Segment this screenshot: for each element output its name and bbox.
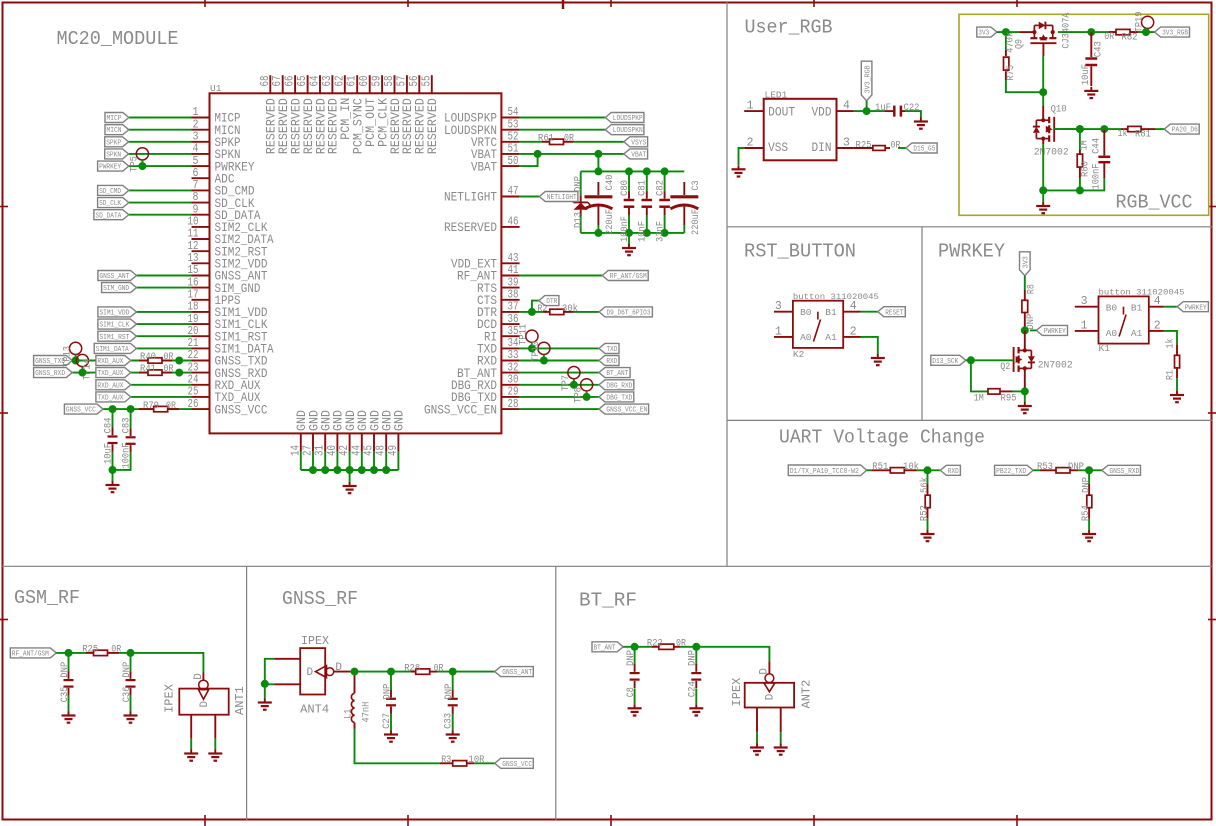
net label RF_ANT/GSM [10, 648, 56, 658]
zener diode D13 [580, 171, 582, 196]
wire DTR [520, 311, 543, 313]
resistor R41 [139, 372, 148, 374]
RGB_VCC group box [959, 14, 1209, 215]
U1 pin 33 RXD [501, 360, 519, 362]
wire [574, 141, 624, 143]
wire [1054, 128, 1104, 130]
svg-text:4: 4 [843, 100, 850, 113]
wire [1138, 31, 1155, 33]
K1 pin 3 [1075, 306, 1099, 308]
U1 pin 38 CTS [501, 299, 519, 301]
wire [437, 671, 495, 673]
svg-text:28: 28 [508, 398, 519, 411]
wire [1155, 128, 1164, 130]
capacitor C24 [695, 647, 697, 665]
junction [370, 466, 378, 474]
wire [1033, 469, 1040, 471]
U1 pin 49 GND [397, 433, 399, 451]
resistor R3 [440, 762, 453, 764]
wire [361, 452, 363, 470]
U1 pin 62 PCM_IN [344, 75, 346, 93]
net label BT_ANT [592, 642, 623, 652]
wire [137, 275, 192, 277]
svg-text:R61: R61 [538, 133, 554, 145]
antenna connector ANT4 (IPEX) [300, 648, 325, 694]
test point TP5 [136, 148, 148, 160]
resistor R79 [139, 408, 154, 410]
wire [532, 301, 539, 312]
net label PWRKEY [1036, 325, 1067, 335]
svg-text:11: 11 [188, 228, 199, 241]
net label RXD [940, 465, 960, 475]
wire [385, 452, 387, 470]
test point TP14 [76, 354, 88, 366]
svg-text:PWRKEY: PWRKEY [1185, 304, 1208, 312]
svg-text:67: 67 [271, 76, 284, 87]
svg-text:MC20_MODULE: MC20_MODULE [57, 28, 179, 50]
wire [1088, 519, 1090, 530]
K2 pin 3 [774, 311, 793, 313]
wire VBAT [520, 153, 624, 155]
net label PWRKEY [1177, 302, 1208, 312]
U1 pin 5 PWRKEY [192, 165, 210, 167]
svg-text:1: 1 [193, 106, 199, 119]
wire [264, 684, 266, 699]
svg-text:C84: C84 [102, 418, 114, 434]
svg-text:58: 58 [383, 75, 396, 86]
svg-text:12: 12 [188, 240, 199, 253]
net label GNSS_RXD [34, 368, 73, 378]
svg-text:0R: 0R [166, 400, 176, 412]
svg-text:IPEX: IPEX [163, 684, 177, 713]
junction [594, 167, 602, 175]
junction [1076, 125, 1084, 133]
resistor R81 [1104, 128, 1121, 130]
wire [129, 117, 192, 119]
svg-text:U1: U1 [210, 83, 222, 94]
junction [351, 668, 359, 676]
net label MICN [105, 125, 129, 135]
LED1 pin 2 [744, 147, 764, 149]
svg-text:DNP: DNP [121, 662, 133, 678]
U1 pin 26 GNSS_VCC [192, 408, 210, 410]
junction [594, 150, 602, 158]
net label SD_DATA [94, 210, 129, 220]
svg-text:PB22_TXD: PB22_TXD [996, 468, 1026, 476]
ground [780, 744, 782, 748]
wire [129, 165, 192, 167]
svg-text:220uF: 220uF [604, 209, 616, 235]
wire [597, 154, 599, 172]
push button K1 [1099, 296, 1149, 343]
net label GNSS_ANT [495, 667, 534, 677]
wire [72, 360, 191, 362]
svg-text:3V3_RGB: 3V3_RGB [864, 65, 872, 93]
svg-text:LOUDSPKN: LOUDSPKN [613, 127, 643, 135]
wire [971, 360, 988, 391]
wire VBAT rail [581, 170, 685, 172]
wire [137, 287, 192, 289]
svg-text:56: 56 [408, 75, 421, 86]
net label DBG_TXD [599, 392, 634, 402]
net label BT_ANT [599, 368, 630, 378]
junction [924, 466, 932, 474]
svg-text:SD_CLK: SD_CLK [99, 200, 122, 208]
U1 pin 18 SIM1_VDD [192, 311, 210, 313]
U1 pin 31 GND [324, 433, 326, 451]
ground [1176, 391, 1178, 395]
antenna connector ANT2 (IPEX) [768, 661, 770, 674]
wire [1024, 276, 1026, 290]
svg-text:RF_ANT/GSM: RF_ANT/GSM [12, 651, 49, 659]
svg-text:RXD_AUX: RXD_AUX [97, 382, 124, 390]
wire [349, 470, 351, 482]
svg-text:Q10: Q10 [1051, 103, 1067, 115]
U1 pin 67 RESERVED [282, 75, 284, 93]
junction [1021, 326, 1029, 334]
U1 pin 40 GND [336, 433, 338, 451]
U1 pin 58 RESERVED [394, 75, 396, 93]
svg-text:R75: R75 [1005, 65, 1017, 81]
net label D9_D6T_6PIO3 [599, 307, 652, 317]
svg-text:C80: C80 [619, 180, 631, 196]
svg-text:R1: R1 [1165, 370, 1177, 380]
U1 pin 36 DCD [501, 323, 519, 325]
ground [390, 731, 392, 735]
wire [129, 141, 192, 143]
capacitor C81 [646, 171, 648, 191]
svg-text:RESET: RESET [885, 309, 903, 317]
wire DBG_TXD [520, 396, 599, 398]
svg-text:D13_SCK: D13_SCK [932, 358, 959, 366]
resistor R95 [988, 389, 1000, 394]
wire [966, 359, 971, 361]
IC LED1 body [764, 99, 837, 161]
net label SIM1_DATA [94, 343, 136, 353]
U1 pin 54 LOUDSPKP [501, 117, 519, 119]
wire [997, 31, 1020, 33]
svg-text:DNP: DNP [687, 650, 699, 666]
svg-text:D13: D13 [572, 212, 584, 228]
svg-text:GSM_RF: GSM_RF [14, 587, 80, 609]
svg-text:GNSS_RXD: GNSS_RXD [35, 370, 65, 378]
junction [1142, 28, 1150, 36]
svg-text:D: D [307, 667, 314, 679]
U1 pin 43 VDD_EXT [501, 262, 519, 264]
svg-text:DNP: DNP [1068, 461, 1084, 473]
svg-text:8: 8 [193, 191, 199, 204]
svg-text:470k: 470k [1005, 32, 1017, 53]
net label SIM1_RST [98, 331, 137, 341]
svg-text:R79: R79 [143, 400, 159, 412]
wire TXD [520, 347, 599, 349]
U1 pin 56 RESERVED [418, 75, 420, 93]
U1 pin 4 SPKN [192, 153, 210, 155]
svg-text:3: 3 [1081, 295, 1088, 308]
junction [175, 369, 183, 377]
junction [570, 381, 578, 389]
capacitor C35 [68, 653, 70, 671]
svg-text:VBAT: VBAT [471, 159, 497, 174]
test point TP19 [1142, 16, 1154, 28]
svg-text:ANT2: ANT2 [800, 680, 814, 709]
svg-text:SIM1_DATA: SIM1_DATA [96, 346, 130, 354]
junction [358, 466, 366, 474]
ANT1 ground pins [190, 715, 192, 739]
svg-text:GNSS_VCC_EN: GNSS_VCC_EN [424, 402, 497, 417]
svg-text:C43: C43 [1093, 41, 1105, 57]
svg-text:1M: 1M [974, 393, 984, 405]
svg-text:0R: 0R [1104, 31, 1114, 43]
wire RF_ANT/GSM [520, 275, 603, 277]
svg-text:SIM1_VDD: SIM1_VDD [99, 310, 129, 318]
supply label 3V3_RGB [861, 61, 872, 101]
transistor Q9 CJ3407A (P-FET) [1019, 31, 1034, 33]
capacitor C43 [1090, 32, 1092, 57]
svg-text:GND: GND [392, 410, 407, 431]
net label D15_G5 [906, 143, 937, 153]
svg-text:1k: 1k [1165, 339, 1177, 349]
K1 pin 4 [1149, 306, 1164, 308]
svg-text:DNP: DNP [1080, 477, 1092, 493]
svg-text:2: 2 [747, 137, 754, 150]
U1 pin 6 ADC [192, 177, 210, 179]
wire [300, 452, 302, 470]
svg-text:46: 46 [508, 216, 519, 229]
ground [264, 699, 266, 703]
svg-text:30k: 30k [562, 303, 578, 315]
resistor R82 [1109, 31, 1116, 33]
ground [628, 244, 630, 248]
net label PA20_D6 [1164, 124, 1199, 134]
svg-text:55: 55 [420, 75, 433, 86]
resistor R8 [1024, 290, 1026, 300]
capacitor C33 [452, 672, 454, 690]
wire [56, 652, 86, 654]
svg-text:1: 1 [775, 325, 782, 338]
svg-text:57: 57 [395, 76, 408, 87]
svg-text:51: 51 [508, 143, 519, 156]
svg-text:10nF: 10nF [637, 221, 649, 242]
wire RESET [861, 311, 878, 313]
svg-text:1uF: 1uF [875, 102, 891, 114]
svg-text:C82: C82 [654, 180, 666, 196]
svg-text:C81: C81 [637, 180, 649, 196]
wire [119, 653, 203, 673]
wire [129, 153, 192, 155]
junction [534, 150, 542, 158]
U1 pin 44 GND [361, 433, 363, 451]
U1 pin 14 GND [300, 433, 302, 451]
U1 pin 19 SIM1_CLK [192, 323, 210, 325]
capacitor C8 [634, 647, 636, 665]
resistor R52 [927, 470, 929, 484]
net label SD_CLK [98, 198, 129, 208]
svg-text:R81: R81 [1135, 129, 1151, 141]
svg-text:29: 29 [508, 386, 519, 399]
net label GNSS_VCC [64, 404, 103, 414]
antenna connector ANT1 (IPEX) [202, 673, 204, 681]
LED1 pin 3 [837, 147, 854, 149]
wire [137, 335, 192, 337]
svg-text:RXD: RXD [606, 358, 617, 366]
svg-text:RXD: RXD [948, 468, 959, 476]
svg-text:R82: R82 [1122, 32, 1138, 44]
wire [1042, 190, 1044, 202]
net label LOUDSPKP [605, 113, 644, 123]
K2 pin 4 [843, 311, 860, 313]
U1 pin 52 VRTC [501, 141, 519, 143]
svg-text:NETLIGHT: NETLIGHT [547, 194, 577, 202]
svg-text:C40: C40 [604, 175, 616, 191]
svg-text:ANT1: ANT1 [233, 686, 247, 715]
U1 pin 60 PCM_OUT [369, 75, 371, 93]
svg-text:61: 61 [346, 75, 359, 86]
svg-text:DNP: DNP [443, 684, 455, 700]
svg-text:0R: 0R [164, 351, 174, 363]
wire [628, 233, 630, 244]
capacitor C83 [130, 409, 132, 428]
inductor L1 [354, 675, 356, 693]
svg-text:UART Voltage Change: UART Voltage Change [779, 427, 985, 449]
U1 pin 29 DBG_TXD [501, 396, 519, 398]
junction [309, 466, 317, 474]
svg-text:RGB_VCC: RGB_VCC [1116, 192, 1193, 214]
capacitor C40 (polarized) [597, 182, 599, 195]
junction [583, 393, 591, 401]
svg-text:NETLIGHT: NETLIGHT [444, 190, 497, 205]
wire [1042, 56, 1044, 92]
U1 pin 68 RESERVED [269, 75, 271, 93]
resistor R61 [542, 141, 550, 143]
svg-text:B1: B1 [1131, 303, 1143, 314]
net label D1/TX_PA10_TCC0-W2 [788, 465, 866, 476]
net label TXD [599, 343, 619, 353]
svg-text:TP8: TP8 [573, 387, 585, 403]
U1 pin 16 SIM_GND [192, 287, 210, 289]
svg-text:36: 36 [508, 313, 519, 326]
net label GNSS_VCC [495, 758, 534, 768]
ground [452, 731, 454, 735]
test point TP7 [568, 367, 580, 379]
svg-text:63: 63 [321, 75, 334, 86]
net label SIM_GND [102, 283, 137, 293]
U1 pin 25 TXD_AUX [192, 396, 210, 398]
U1 pin 50 VBAT [501, 165, 519, 167]
svg-text:TP13: TP13 [62, 346, 74, 367]
svg-text:R2: R2 [538, 303, 548, 315]
junction [1085, 466, 1093, 474]
U1 pin 41 RF_ANT [501, 275, 519, 277]
wire [334, 671, 350, 673]
wire [112, 470, 114, 481]
U1 pin 55 RESERVED [431, 75, 433, 93]
junction [1100, 125, 1108, 133]
svg-text:R80: R80 [1079, 161, 1091, 177]
wire [131, 384, 192, 386]
wire [1006, 80, 1043, 92]
wire [137, 323, 192, 325]
net label GNSS_VCC_EN [599, 404, 649, 414]
svg-text:DIN: DIN [812, 140, 832, 155]
wire [1176, 378, 1178, 391]
wire [129, 129, 192, 131]
wire [355, 729, 440, 763]
test point TP11 [526, 330, 538, 342]
wire RXD [520, 360, 599, 362]
svg-text:R25: R25 [856, 140, 872, 152]
svg-text:R52: R52 [918, 505, 930, 521]
resistor R2 [543, 311, 550, 313]
svg-text:17: 17 [188, 288, 199, 301]
U1 pin 15 GNSS_ANT [192, 275, 210, 277]
svg-text:DOUT: DOUT [768, 104, 795, 119]
svg-text:D: D [193, 673, 205, 680]
junction [109, 466, 117, 474]
wire [324, 452, 326, 470]
svg-text:TP11: TP11 [518, 324, 530, 345]
svg-text:R3: R3 [441, 754, 451, 766]
svg-text:SD_DATA: SD_DATA [95, 212, 122, 220]
svg-text:CJ3407A: CJ3407A [1061, 12, 1073, 49]
U1 pin 32 BT_ANT [501, 372, 519, 374]
svg-text:A1: A1 [1131, 328, 1143, 339]
junction [863, 107, 871, 115]
test point TP10 [538, 342, 550, 354]
svg-text:D15_G5: D15_G5 [913, 146, 935, 154]
svg-text:DNP: DNP [59, 662, 71, 678]
wire [1042, 144, 1044, 190]
junction [109, 405, 117, 413]
net label TXD_AUX [96, 392, 131, 402]
svg-text:GNSS_RF: GNSS_RF [282, 588, 358, 610]
U1 pin 27 GND [312, 433, 314, 451]
U1 pin 66 RESERVED [294, 75, 296, 93]
svg-text:3V3_RGB: 3V3_RGB [1162, 30, 1188, 38]
U1 pin 37 DTR [501, 311, 519, 313]
junction [528, 308, 536, 316]
junction [65, 649, 73, 657]
net label GNSS_TXD [34, 356, 73, 366]
net label GNSS_ANT [98, 271, 137, 281]
junction [78, 369, 86, 377]
svg-text:K2: K2 [793, 349, 805, 360]
junction [661, 167, 669, 175]
svg-text:User_RGB: User_RGB [745, 17, 833, 39]
junction [692, 643, 700, 651]
svg-text:DNP: DNP [625, 650, 637, 666]
svg-text:68: 68 [259, 75, 272, 86]
wire [520, 141, 542, 143]
wire PWRKEY [1164, 306, 1177, 308]
ground [190, 750, 192, 754]
U1 pin 47 NETLIGHT [501, 196, 519, 198]
wire [103, 408, 192, 410]
push button K2 [793, 301, 843, 348]
junction [346, 466, 354, 474]
svg-text:65: 65 [296, 75, 309, 86]
U1 pin 21 SIM1_DATA [192, 347, 210, 349]
wire [898, 147, 906, 149]
svg-text:PWRKEY: PWRKEY [938, 241, 1006, 263]
wire [137, 347, 192, 349]
K2 pin 1 [774, 336, 793, 338]
wire [373, 452, 375, 470]
wire [1024, 391, 1026, 402]
svg-text:RF_ANT/GSM: RF_ANT/GSM [610, 273, 647, 281]
svg-text:TP10: TP10 [530, 341, 542, 362]
svg-text:R25: R25 [82, 644, 98, 656]
